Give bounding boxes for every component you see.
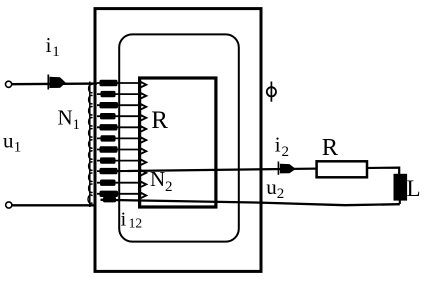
label i2 [275,133,289,161]
svg-text:1: 1 [73,117,81,133]
svg-text:2: 2 [165,179,173,195]
wire: top output (N2 top lead through core to resistor) [100,168,399,175]
label N2 [150,167,173,195]
svg-text:u: u [3,129,14,153]
svg-text:1: 1 [14,139,21,155]
wire: bottom input lead from left terminal to core [12,204,96,206]
label u1 [3,129,21,156]
svg-text:N: N [150,167,165,191]
svg-text:2: 2 [282,144,290,160]
svg-text:1: 1 [52,44,60,60]
current arrow i1 [48,75,66,90]
svg-text:N: N [58,106,73,130]
wire: top input lead from left terminal to core [12,82,97,85]
svg-text:i: i [46,33,52,57]
label N1 [58,106,81,134]
svg-text:L: L [407,176,421,201]
svg-text:2: 2 [277,186,285,202]
label i1 [46,33,60,60]
terminal: top-left input [6,81,12,87]
svg-text:R: R [322,134,339,161]
resistor R [317,161,367,177]
svg-text:i: i [275,133,281,157]
flux path loop [119,34,239,241]
flux label φ [267,82,276,102]
wire: bottom output (N2 bottom lead through core to inductor) [101,200,400,205]
svg-text:R: R [151,107,168,134]
current arrow i2 [278,162,295,175]
svg-text:u: u [266,175,277,199]
terminal: bottom-left input [6,202,12,208]
label u2 [266,175,284,202]
secondary winding N2: loop hooks on frame edge [140,82,146,199]
svg-text:i: i [121,209,127,231]
svg-text:12: 12 [129,216,143,231]
primary winding N1: left-side loop arcs and lead line [88,82,92,208]
label i12 [121,209,143,231]
inductor L [394,174,408,204]
secondary winding frame (N2 former) [140,78,216,207]
transformer core (outer outline) [95,9,261,272]
primary winding N1: wire cross-section blobs [100,80,119,203]
primary winding N1: turn lines [97,83,142,194]
